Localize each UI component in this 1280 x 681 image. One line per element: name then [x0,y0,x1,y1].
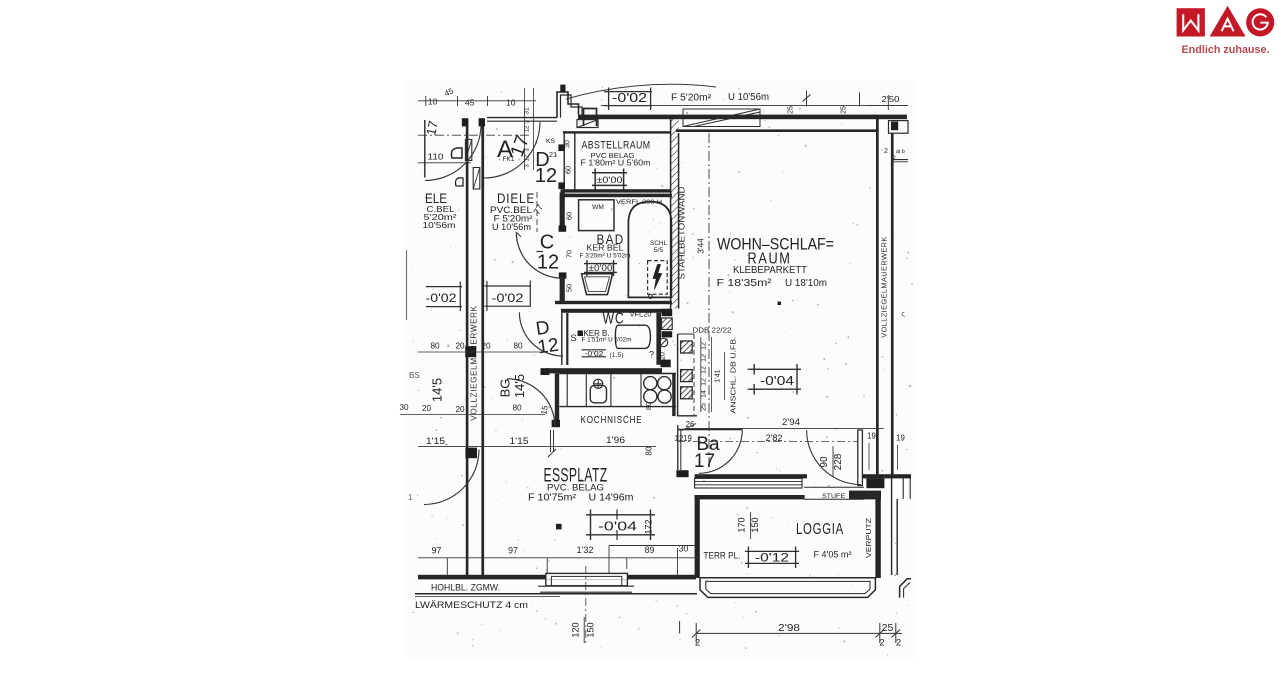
svg-text:1'96: 1'96 [606,435,625,445]
wall loggia left [695,495,700,578]
svg-text:S: S [570,333,576,344]
svg-text:DIELE: DIELE [497,190,535,206]
svg-text:TERR PL.: TERR PL. [704,551,741,561]
door leaf loggia door [858,430,863,486]
level mark -0'02 left second [485,285,532,287]
svg-text:F 4'05 m²: F 4'05 m² [814,550,852,560]
svg-text:F 18'35m²: F 18'35m² [717,278,773,289]
svg-text:10: 10 [428,97,438,107]
dim line top left [418,100,536,102]
svg-text:-0'02: -0'02 [426,293,457,305]
svg-text:30: 30 [679,544,689,554]
wall corridor top thin double line left of entrance [487,117,557,119]
svg-text:172: 172 [644,520,654,535]
door post Abstellraum upper black [558,144,565,151]
svg-text:21: 21 [549,150,557,159]
fixture washing machine WM [579,200,614,231]
svg-text:97: 97 [508,546,518,556]
door swing arc kitchen [507,379,555,427]
svg-text:1'32: 1'32 [577,545,594,555]
dim 120 150 window rotated [583,617,585,643]
svg-text:14'5: 14'5 [512,374,527,398]
dim line 2'98 bottom [696,632,902,634]
svg-text:80: 80 [430,342,440,351]
dim line top right with ticks [601,105,908,107]
svg-text:12: 12 [536,335,560,359]
vent circle symbol [659,338,667,346]
svg-text:3'44: 3'44 [696,238,706,254]
svg-text:10'56m: 10'56m [423,220,456,230]
corner black WC bottom-left [541,368,550,375]
door post left pair black [462,118,468,126]
svg-text:STAHLBETONWAND: STAHLBETONWAND [678,186,687,279]
logo WAG square with W [1177,8,1205,36]
wall loggia right [875,495,880,578]
svg-text:VFL20: VFL20 [630,312,652,319]
dim row 1'15 1'15 1'96 80 [418,446,656,448]
wall WC left double [561,313,563,365]
svg-text:WM: WM [592,204,604,211]
svg-text:U 18'10m: U 18'10m [785,278,827,289]
svg-text:KER BEL: KER BEL [587,243,624,253]
svg-text:17: 17 [423,119,441,136]
svg-text:110: 110 [428,152,444,162]
svg-text:VOLLZIEGELMAUERWERK: VOLLZIEGELMAUERWERK [880,236,889,338]
wall loggia top left segment [695,495,805,499]
wall WC right thick [656,313,661,365]
wall Bad left thick upper [560,193,565,229]
svg-text:2: 2 [695,638,700,649]
svg-text:12: 12 [701,342,708,350]
svg-text:19: 19 [896,434,905,443]
door post C upper black [559,225,567,231]
loggia balustrade inner [706,581,870,593]
svg-text:LOGGIA: LOGGIA [796,521,844,538]
wall Bad left lower stub [560,277,565,304]
svg-text:1'15: 1'15 [510,436,529,446]
cross ticks left of level mark [748,368,761,370]
wall right Vollziegelmauerwerk outer line [876,118,879,475]
level mark -0'02 top [604,91,652,93]
hinge symbol U left wall [451,148,462,158]
svg-text:25: 25 [701,403,708,411]
wall kitchen right vertical [672,374,675,417]
left boundary wall partial [424,120,426,178]
svg-text:17: 17 [694,451,715,472]
dim line 2'82 dash-dot [677,441,858,443]
svg-text:97: 97 [432,546,442,556]
wall Stahlbetonwand hatched strip [670,119,679,309]
svg-text:60: 60 [565,212,574,220]
dim line left below 110 [418,162,471,164]
corner blocks right of loggia door [862,474,884,478]
dim line 2'94 [685,427,884,429]
shaft hatched square 2 [681,370,693,382]
svg-text:FK1: FK1 [503,156,515,163]
svg-text:F 5'20m²: F 5'20m² [671,92,712,103]
wall Bad top thick [563,194,672,198]
dim 170 150 rotated loggia [750,512,752,539]
black block below vent [661,360,671,368]
svg-text:20: 20 [455,405,465,414]
svg-text:STUFE: STUFE [822,493,845,500]
svg-text:2'98: 2'98 [778,622,800,634]
svg-text:DDB 22/22: DDB 22/22 [693,325,732,334]
door Ba leaf and arc [678,429,743,431]
svg-text:10: 10 [506,98,516,108]
doormat U symbol [584,109,597,127]
svg-text:30: 30 [565,140,572,148]
shaft blocks right of WC black and hatched [662,309,673,316]
step STUFE [804,486,864,488]
guide line essplatz right [609,545,695,547]
svg-text:1: 1 [408,493,413,502]
svg-text:80: 80 [512,404,522,413]
fixture sink with faucet [594,379,603,388]
svg-text:70: 70 [565,250,574,258]
axis dash-dot line left [418,134,530,136]
svg-text:12: 12 [701,354,708,362]
level mark +-0'00 Abstellraum [592,172,627,174]
svg-text:U 10'56m: U 10'56m [728,92,769,103]
svg-text:PVC. BELAG: PVC. BELAG [547,482,604,493]
level mark +-0'00 Bad [584,263,617,265]
svg-text:F 1'80m² U 5'60m: F 1'80m² U 5'60m [581,159,651,168]
svg-text:±0'00: ±0'00 [597,175,623,186]
svg-text:170: 170 [737,517,747,532]
svg-text:F 3'20m² U 5'02m: F 3'20m² U 5'02m [580,253,631,260]
wall right inner line [891,134,894,475]
svg-text:ANSCHL. DB U.FB.: ANSCHL. DB U.FB. [729,337,738,414]
door post C lower black [559,272,567,278]
svg-text:HOHLBL. ZGMW.: HOHLBL. ZGMW. [431,582,500,593]
wall bottom inner line [415,593,697,595]
door D swing arc into Diele [519,312,563,356]
window center axis dashed [585,566,587,645]
svg-text:?: ? [649,350,654,360]
svg-text:80: 80 [513,342,523,351]
svg-text:2: 2 [879,638,884,649]
svg-text:F 10'75m²: F 10'75m² [528,492,577,503]
fixture washbasin [582,274,613,295]
door post Abstellraum lower black [558,182,565,189]
svg-text:-0'02: -0'02 [585,349,604,358]
door arc ELE room [425,125,481,181]
door arc BG into Essplatz [424,450,479,505]
svg-text:Endlich zuhause.: Endlich zuhause. [1182,44,1270,56]
svg-text:F 1'51m² U 5'02m: F 1'51m² U 5'02m [582,337,632,344]
svg-text:45: 45 [465,98,475,108]
svg-text:25: 25 [841,106,848,114]
wall top inner line of Wohn-Schlaf-Raum [676,129,877,132]
svg-text:2'94: 2'94 [782,417,800,427]
shaft hatched square 1 [681,341,693,353]
svg-text:89: 89 [645,545,655,555]
svg-text:20: 20 [481,342,491,351]
svg-text:14: 14 [701,390,708,398]
doormat hatched rectangle [577,120,598,128]
black square symbol Essplatz [556,524,562,530]
door leaf kitchen entrance thick [555,374,559,422]
svg-text:12: 12 [701,366,708,374]
entrance stepped wall outline [557,92,579,118]
open door leaf parallelogram top [683,109,760,127]
wall WC top thick [561,309,672,313]
svg-text:12: 12 [701,378,708,386]
svg-text:-0'02: -0'02 [492,293,524,305]
svg-text:al b: al b [896,149,905,155]
tick marks 11 7 [550,430,552,452]
svg-text:90: 90 [819,456,830,468]
window detail top right corner [889,121,909,134]
wall Essplatz right vertical double [677,425,679,470]
svg-text:14'5: 14'5 [430,378,445,402]
window bottom Essplatz [546,573,628,579]
svg-text:1'41: 1'41 [715,369,722,382]
svg-text:50: 50 [565,284,574,292]
logo WAG triangle with A [1210,6,1246,37]
svg-text:±0'00: ±0'00 [589,263,613,273]
wall left Vollziegelmauerwerk inner line [481,119,484,576]
level mark -0'02 WC [582,349,607,351]
wall Abstellraum left double [563,133,565,190]
wall Bad/WC divider thick [555,301,672,304]
svg-text:-0'02: -0'02 [612,91,647,105]
neighbor loggia balustrade partial [900,579,911,598]
level mark -0'04 Wohnraum [750,368,801,370]
svg-text:BG: BG [498,379,513,398]
dashed boundary Diele-Bad [536,192,538,232]
svg-text:20: 20 [660,352,667,360]
svg-text:2'82: 2'82 [766,433,783,443]
svg-text:U 10'56m: U 10'56m [492,222,531,232]
fixture electric boiler dashed box with bolt [648,261,668,295]
wall bottom outer thick [418,575,696,580]
svg-text:(1.5): (1.5) [610,352,624,359]
wall top inner line of Abstellraum corridor [563,131,671,133]
svg-text:150: 150 [586,622,596,637]
wall node black left wall mid [465,346,476,357]
wall top outer (building exterior top) [578,115,907,120]
scan speckle noise [412,87,913,656]
shaft outline right of kitchen [678,334,697,416]
svg-text:80: 80 [644,402,653,410]
svg-text:2: 2 [884,148,888,155]
door post black Ba bottom [676,470,688,477]
svg-text:20: 20 [422,404,432,413]
svg-text:60: 60 [564,166,573,174]
wall Abstellraum bottom thick [561,189,671,192]
level mark -0'02 left first [426,286,462,288]
fixture bathtub [628,202,671,298]
door post black kitchen leaf bottom [552,420,560,427]
fixture toilet [615,325,650,348]
door C swing arc into Diele [516,232,562,278]
svg-text:-0'04: -0'04 [598,519,637,534]
svg-text:228: 228 [833,453,844,470]
neighbor wall right stub [884,474,911,478]
svg-text:-0'04: -0'04 [760,374,794,388]
svg-text:-0'12: -0'12 [755,551,789,565]
shaft hatched square 3 [681,387,693,399]
wall left Vollziegelmauerwerk outer line [466,119,469,576]
svg-text:KLEBEPARKETT: KLEBEPARKETT [733,265,808,276]
svg-text:VERPUTZ: VERPUTZ [864,517,873,558]
logo WAG circle with G [1246,8,1274,36]
svg-text:12: 12 [525,125,531,132]
svg-text:ABSTELLRAUM: ABSTELLRAUM [582,140,651,152]
svg-text:19: 19 [867,432,876,441]
svg-text:BS: BS [409,371,420,380]
svg-text:80: 80 [645,446,654,456]
svg-text:120: 120 [571,622,581,637]
small dot Wohnraum [778,302,782,306]
wall WC bottom thick [546,368,662,373]
svg-text:KS: KS [546,138,556,145]
dim 90 228 rotated [832,446,834,477]
fixture stove four plates [644,377,657,390]
sill lines below wall [695,478,802,488]
svg-text:150: 150 [750,517,760,532]
svg-text:5/5: 5/5 [654,247,664,254]
hinge symbol small lower [455,178,463,186]
svg-text:U 14'96m: U 14'96m [589,492,634,503]
dim row 97 97 1'32 89 30 [418,557,695,559]
kitchen counter outline [560,373,677,375]
svg-text:20: 20 [455,342,465,351]
svg-text:12: 12 [537,252,559,274]
svg-text:SCHL: SCHL [650,240,667,247]
svg-text:1'15: 1'15 [426,436,445,446]
svg-text:LWÄRMESCHUTZ 4 cm: LWÄRMESCHUTZ 4 cm [415,600,528,611]
shaft parallelogram in wall niche lower [473,168,480,190]
svg-text:KOCHNISCHE: KOCHNISCHE [581,415,643,426]
axis dash-dot line Wohnraum [708,133,710,470]
neighbor wall right of loggia [891,474,893,575]
svg-text:12: 12 [535,165,557,187]
wall node black left wall lower [465,448,477,459]
loggia balustrade outer chamfered [700,578,875,598]
svg-text:C: C [540,232,554,254]
shaft parallelogram in wall niche upper [465,140,471,161]
svg-text:2'50: 2'50 [882,94,900,104]
door arc A into Diele [484,122,540,178]
node small circle Bad bottom [649,295,653,299]
svg-text:25: 25 [788,106,795,114]
svg-text:2: 2 [896,638,901,649]
wall below Wohnraum thick [695,474,807,478]
door arc loggia door [807,430,861,484]
wall loggia top right segment [849,491,881,500]
entrance door swing arc over corridor [566,84,716,99]
level mark -0'12 loggia [745,550,799,552]
level mark -0'04 Essplatz [586,514,655,516]
svg-text:30: 30 [399,403,409,412]
entrance stub black [560,85,565,93]
svg-text:VOLLZIEGELMAUERWERK: VOLLZIEGELMAUERWERK [470,305,479,420]
svg-text:25: 25 [882,622,894,634]
